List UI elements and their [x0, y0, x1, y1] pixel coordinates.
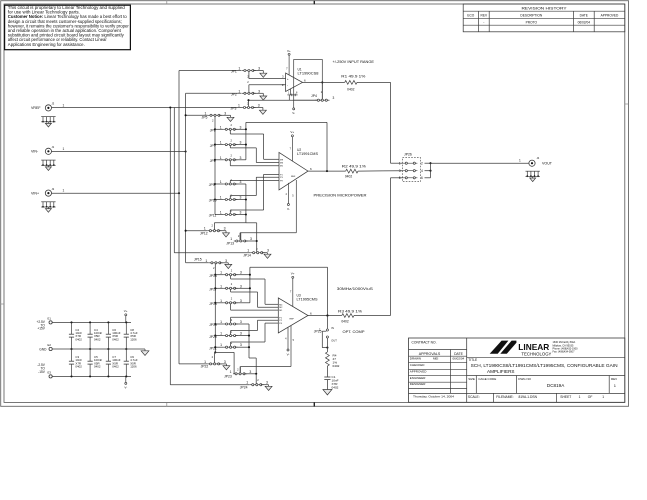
svg-text:VREF: VREF — [31, 106, 41, 110]
svg-text:1: 1 — [205, 259, 207, 263]
svg-text:JP12: JP12 — [200, 231, 208, 235]
svg-text:3: 3 — [249, 370, 251, 374]
revision history table — [463, 4, 625, 32]
svg-text:0402: 0402 — [75, 337, 82, 341]
jumper JP26 — [403, 158, 421, 182]
wire JP3 net to JP4 pin1 / U1 gain pins — [249, 99, 318, 101]
svg-text:3: 3 — [225, 259, 227, 263]
svg-text:JP4: JP4 — [311, 94, 317, 98]
jumper JP3 — [242, 107, 256, 109]
svg-text:OUT: OUT — [331, 338, 337, 342]
svg-text:JP21: JP21 — [209, 346, 217, 350]
svg-text:5: 5 — [399, 176, 401, 180]
wire E1 rail V+ — [52, 321, 131, 323]
svg-text:DATE: DATE — [580, 14, 588, 18]
jumper JP12 — [186, 230, 208, 232]
V- symbol at cap bank — [125, 376, 127, 382]
wire JP3 pin2 up to U1 pin1 net — [248, 100, 250, 106]
U1 package/feedback box — [294, 60, 323, 101]
svg-text:VOUT: VOUT — [542, 162, 553, 166]
svg-text:REV: REV — [611, 377, 617, 381]
svg-text:3: 3 — [333, 96, 335, 100]
svg-text:1: 1 — [579, 395, 581, 399]
U3 feedback from output — [326, 314, 328, 316]
wire tie down to JP24 pin2 — [255, 374, 257, 384]
svg-text:DESCRIPTION: DESCRIPTION — [520, 14, 542, 18]
svg-text:MEI: MEI — [433, 357, 439, 361]
node VIN- vertical bus — [185, 93, 187, 262]
svg-text:0402: 0402 — [94, 365, 101, 369]
svg-text:1: 1 — [63, 147, 65, 151]
wire R4 to C1 — [326, 366, 328, 377]
svg-text:R2 49.9 1%: R2 49.9 1% — [342, 164, 366, 168]
svg-text:0402: 0402 — [333, 364, 340, 368]
svg-text:REF: REF — [290, 319, 295, 321]
wire JP1 pin2 to U1 +IN — [248, 72, 250, 79]
svg-text:1: 1 — [246, 381, 248, 385]
wire tie to JP13 pin3 and JP14 pin2 — [246, 222, 257, 224]
jumper JP23 — [233, 373, 247, 375]
svg-text:CHECKED: CHECKED — [410, 363, 426, 367]
svg-text:JP22: JP22 — [201, 364, 209, 368]
U2 feedback tie vertical — [245, 122, 247, 159]
V- symbol U1 — [290, 89, 292, 95]
node VREF vertical bus — [169, 108, 171, 385]
wire E3 rail V- — [52, 375, 131, 377]
svg-text:1: 1 — [238, 89, 240, 93]
svg-text:1: 1 — [204, 360, 206, 364]
svg-text:JP8: JP8 — [210, 159, 216, 163]
svg-text:JP20: JP20 — [209, 335, 217, 339]
node bus B vertical — [173, 108, 175, 253]
ground header below VIN- — [41, 159, 55, 161]
jumper JP4 — [315, 99, 329, 101]
wire JP19 pin2 to U3 P1 input — [230, 317, 232, 323]
svg-text:3: 3 — [250, 237, 252, 241]
wire JP5 pin2 to JP6-JP11 pin1 bus — [214, 116, 216, 214]
svg-text:V+: V+ — [290, 130, 294, 134]
svg-text:ECO: ECO — [467, 14, 474, 18]
svg-text:1: 1 — [220, 332, 222, 336]
capacitor C4 100nF X5R 0402 — [89, 321, 91, 323]
wire JP25 bypass loop — [322, 330, 326, 332]
ground at JP22 — [223, 366, 230, 370]
ground at JP3 — [259, 110, 266, 114]
svg-text:OF: OF — [588, 395, 593, 399]
svg-text:3: 3 — [240, 141, 242, 145]
svg-text:JP18: JP18 — [209, 302, 217, 306]
connector J4 VOUT — [529, 160, 535, 166]
svg-text:JP24: JP24 — [240, 386, 248, 390]
wire E2 rail GND — [52, 348, 145, 350]
svg-text:CONTRACT NO.: CONTRACT NO. — [412, 340, 437, 344]
svg-text:V+: V+ — [287, 49, 291, 53]
svg-text:06/02/04: 06/02/04 — [453, 357, 465, 361]
svg-text:JP6: JP6 — [210, 129, 216, 133]
svg-text:IN: IN — [331, 326, 334, 330]
op-amp U2 triangle — [279, 152, 308, 190]
svg-text:3: 3 — [266, 381, 268, 385]
wire JP9 pin2 to U2 P1 input — [229, 180, 231, 183]
svg-text:Applications Engineering for a: Applications Engineering for assistance. — [8, 42, 85, 47]
svg-text:4: 4 — [421, 169, 423, 173]
svg-text:TECHNOLOGY: TECHNOLOGY — [521, 352, 551, 357]
svg-text:3: 3 — [258, 67, 260, 71]
svg-text:3: 3 — [240, 196, 242, 200]
op-amp U1 triangle — [286, 73, 303, 92]
svg-text:1: 1 — [230, 370, 232, 374]
wire JP7 pin2 to U2 M3 input — [229, 146, 231, 148]
capacitor C7 100nF X5R 0402 — [107, 375, 109, 377]
wire to VOUT — [431, 162, 529, 164]
U3 lower pin3 tie vertical — [248, 324, 250, 358]
svg-text:REVISION HISTORY: REVISION HISTORY — [522, 5, 567, 10]
capacitor C2 10nF X7R 0402 — [70, 321, 72, 323]
svg-text:JP25: JP25 — [314, 329, 322, 333]
svg-text:E3: E3 — [48, 371, 52, 375]
wire JP20 pin2 to U3 P2 input — [230, 331, 232, 335]
ground arrow on GND rail — [144, 349, 146, 351]
proprietary notice text box — [5, 5, 131, 50]
wire JP17 pin2 to U3 M2 input — [230, 289, 232, 292]
svg-text:0402: 0402 — [347, 87, 355, 91]
svg-text:SHEET: SHEET — [560, 395, 571, 399]
ground at JP2 — [260, 96, 267, 100]
svg-text:JP5: JP5 — [202, 116, 208, 120]
wire JP2 pin2 to U1 -IN — [248, 85, 250, 93]
jumper JP17 — [214, 287, 216, 289]
V- symbol U2 — [287, 183, 289, 204]
svg-text:3: 3 — [240, 284, 242, 288]
svg-text:1: 1 — [399, 161, 401, 165]
ground header below VOUT — [526, 170, 540, 172]
svg-text:1: 1 — [238, 104, 240, 108]
ground at JP5 — [227, 117, 234, 121]
svg-text:JP17: JP17 — [209, 288, 217, 292]
wire U2 REF pin to JP13 — [295, 180, 297, 233]
svg-text:1: 1 — [220, 284, 222, 288]
svg-text:APPROVED: APPROVED — [601, 14, 619, 18]
svg-text:VIN-: VIN- — [31, 150, 39, 154]
wire bus to JP5 — [186, 114, 208, 116]
wire VIN- to bus — [52, 151, 186, 153]
svg-text:E2: E2 — [48, 343, 52, 347]
U3 feedback tie vertical — [249, 267, 251, 303]
capacitor C6 100nF X5R 0402 — [107, 321, 109, 323]
wire U3 REF pin to JP23 — [290, 326, 292, 367]
svg-text:JP16: JP16 — [209, 274, 217, 278]
wire JP26 even pins tie — [425, 162, 431, 164]
svg-text:3: 3 — [399, 169, 401, 173]
resistor R4 47 1% 0402 — [326, 352, 330, 366]
jumper JP18 — [214, 302, 216, 304]
svg-text:GND: GND — [39, 347, 47, 351]
svg-text:3: 3 — [240, 156, 242, 160]
Linear Technology logo — [490, 341, 517, 354]
jumper JP20 — [214, 335, 216, 337]
date cell thursday — [409, 392, 625, 394]
svg-text:1: 1 — [238, 67, 240, 71]
svg-text:1: 1 — [247, 249, 249, 253]
op-amp U3 triangle — [278, 298, 308, 333]
svg-text:1: 1 — [602, 395, 604, 399]
svg-text:REV: REV — [481, 14, 488, 18]
wire JP5 pin3 to ground tap — [219, 114, 230, 116]
wire VIN+ to bus — [52, 192, 179, 194]
svg-text:1: 1 — [230, 237, 232, 241]
svg-text:-: - — [483, 21, 484, 25]
ground header below VIN+ — [41, 201, 55, 203]
ground below C1 — [323, 390, 332, 395]
svg-text:V+: V+ — [124, 309, 128, 313]
wire JP11 pin2 to U2 P9 input — [229, 210, 231, 214]
svg-text:VIN+: VIN+ — [31, 191, 39, 195]
svg-text:JP26: JP26 — [404, 152, 412, 156]
ground header below VREF — [41, 116, 55, 118]
svg-text:JP1: JP1 — [231, 70, 237, 74]
wire R2 to JP26 pin3 — [358, 170, 403, 172]
svg-text:+15V: +15V — [37, 327, 45, 331]
jumper JP19 — [214, 323, 216, 325]
wire JP22 pin2 riser and stair to JP23 pin1 — [214, 352, 216, 363]
svg-text:R3 49.9 1%: R3 49.9 1% — [338, 310, 362, 314]
wire JP23 pin2 riser to REF net — [239, 367, 241, 373]
wire JP10 pin2 to U2 P3 input — [229, 196, 231, 199]
svg-text:1: 1 — [220, 156, 222, 160]
wire JP4 pin2 riser to U1 output — [321, 82, 323, 99]
capacitor C9 4.7uF X5R 1206 — [125, 375, 127, 377]
svg-text:1: 1 — [519, 159, 521, 163]
jumper JP9 — [214, 183, 216, 185]
U1 gain pin stubs — [287, 94, 297, 96]
svg-text:SCH, LT1990CS8/LT1991CMS/LT199: SCH, LT1990CS8/LT1991CMS/LT1995CMS, CONF… — [471, 363, 618, 369]
jumper JP5 — [208, 114, 222, 116]
svg-text:1206: 1206 — [130, 365, 137, 369]
svg-text:DWG NO: DWG NO — [518, 377, 531, 381]
wire U2 output to R2 — [308, 170, 346, 172]
svg-text:R1 49.9 1%: R1 49.9 1% — [341, 75, 365, 79]
svg-text:3: 3 — [240, 332, 242, 336]
wire U1 output to R1 — [303, 81, 345, 83]
svg-text:-: - — [287, 83, 288, 87]
svg-text:1: 1 — [204, 227, 206, 231]
jumper JP25 opt comp — [326, 314, 328, 316]
svg-text:1: 1 — [220, 196, 222, 200]
svg-text:3: 3 — [240, 271, 242, 275]
wire JP6 pin2 to U2 M9 input — [229, 130, 231, 134]
svg-text:0402: 0402 — [112, 365, 119, 369]
svg-text:LT1990CS8: LT1990CS8 — [298, 71, 319, 75]
U2 lower pin3 tie vertical — [245, 184, 247, 223]
wire U3 output to R3 — [308, 315, 342, 317]
jumper JP14 — [174, 252, 250, 254]
jumper JP21 — [214, 346, 216, 348]
svg-text:JP3: JP3 — [231, 107, 237, 111]
svg-text:PRECISION MICROPOWER: PRECISION MICROPOWER — [314, 194, 368, 198]
wire JP16 pin2 to U3 M4 input — [230, 276, 232, 279]
svg-text:TITLE: TITLE — [468, 358, 478, 362]
jumper JP11 — [215, 214, 223, 216]
svg-text:3: 3 — [267, 249, 269, 253]
svg-text:1: 1 — [220, 141, 222, 145]
V+ symbol U3 — [292, 276, 294, 278]
svg-text:3: 3 — [258, 104, 260, 108]
svg-text:0402: 0402 — [94, 337, 101, 341]
svg-text:0402: 0402 — [345, 174, 353, 178]
svg-text:V-: V- — [287, 352, 290, 356]
ground at JP15 — [225, 264, 232, 268]
svg-text:REF: REF — [291, 176, 296, 178]
V+ symbol at cap bank — [125, 314, 127, 316]
svg-text:1: 1 — [63, 189, 65, 193]
svg-text:3: 3 — [240, 320, 242, 324]
svg-text:CAGE CODE: CAGE CODE — [478, 377, 496, 381]
ground at JP1 — [260, 73, 267, 77]
svg-text:2: 2 — [421, 161, 423, 165]
title block frame — [409, 338, 625, 402]
wire VREF to bus — [52, 107, 242, 109]
wire JP1 pin3 to ground tap — [253, 70, 263, 72]
wire bus to JP2 — [186, 92, 242, 94]
svg-text:JP11: JP11 — [209, 214, 217, 218]
svg-text:E1: E1 — [48, 316, 52, 320]
svg-text:PROTO: PROTO — [526, 21, 538, 25]
svg-text:JP15: JP15 — [194, 258, 202, 262]
svg-text:3: 3 — [240, 125, 242, 129]
border zone tick bottom — [166, 402, 168, 406]
svg-text:JP9: JP9 — [209, 183, 215, 187]
svg-text:SCALE:: SCALE: — [468, 395, 480, 399]
svg-text:JP2: JP2 — [231, 93, 237, 97]
svg-text:0402: 0402 — [112, 337, 119, 341]
jumper JP15 — [209, 262, 223, 264]
capacitor C5 100nF X5R 0402 — [89, 375, 91, 377]
svg-text:OPT. COMP: OPT. COMP — [343, 330, 366, 334]
svg-text:1: 1 — [63, 103, 65, 107]
V- symbol U3 — [287, 327, 289, 349]
sheet outer border frame — [1, 1, 629, 407]
jumper JP13 — [234, 240, 248, 242]
svg-text:FILENAME:: FILENAME: — [496, 395, 513, 399]
capacitor C8 4.7uF X5R 1206 — [125, 321, 127, 323]
wire JP2 pin3 to ground tap — [253, 92, 263, 94]
svg-text:1: 1 — [220, 180, 222, 184]
U2 feedback from output — [326, 170, 328, 172]
svg-text:0402: 0402 — [332, 385, 339, 389]
wire R1 to JP26 pin1 — [357, 81, 391, 83]
svg-text:V+: V+ — [291, 272, 295, 276]
svg-text:819A-1.DSN: 819A-1.DSN — [519, 395, 538, 399]
svg-text:DRAWN: DRAWN — [410, 357, 421, 361]
jumper JP8 — [214, 159, 216, 161]
svg-text:APPROVED: APPROVED — [410, 369, 428, 373]
svg-text:1: 1 — [220, 211, 222, 215]
wire JP25 to R4 — [326, 338, 328, 352]
V+ symbol U1 — [288, 53, 290, 55]
svg-text:JP23: JP23 — [224, 375, 232, 379]
svg-text:1: 1 — [220, 271, 222, 275]
jumper JP22 — [179, 363, 208, 365]
border zone tick left — [1, 303, 4, 305]
svg-text:3: 3 — [224, 227, 226, 231]
ground at JP14 — [264, 254, 271, 258]
wire JP8 pin2 to U2 M1 input — [229, 161, 231, 166]
jumper JP2 — [242, 92, 256, 94]
svg-text:DC819A: DC819A — [547, 383, 565, 388]
wire JP15 pin2 to JP16-JP21 pin1 bus — [214, 264, 216, 353]
svg-text:06/02/04: 06/02/04 — [578, 21, 591, 25]
svg-text:1: 1 — [205, 111, 207, 115]
svg-text:V-: V- — [292, 111, 295, 115]
svg-text:1: 1 — [220, 125, 222, 129]
svg-text:JP14: JP14 — [243, 253, 251, 257]
svg-text:1: 1 — [220, 343, 222, 347]
svg-text:3: 3 — [224, 360, 226, 364]
wire JP18 pin2 to U3 M1 input — [230, 304, 232, 310]
svg-text:LINEAR: LINEAR — [518, 343, 549, 352]
ground at JP24 — [265, 386, 272, 390]
wire JP3 pin3 to ground tap — [253, 107, 263, 109]
svg-text:V-: V- — [124, 386, 127, 390]
svg-text:JP13: JP13 — [226, 242, 234, 246]
svg-text:JP10: JP10 — [209, 199, 217, 203]
svg-text:LT1995CMS: LT1995CMS — [297, 298, 319, 302]
svg-text:DESIGNER: DESIGNER — [410, 382, 427, 386]
border zone tick right — [625, 103, 629, 105]
svg-text:V-: V- — [287, 207, 290, 211]
svg-text:Thursday, October 14, 2004: Thursday, October 14, 2004 — [413, 395, 454, 399]
svg-text:-15V: -15V — [38, 370, 46, 374]
svg-text:+/-250V INPUT RANGE: +/-250V INPUT RANGE — [333, 60, 375, 64]
svg-text:1206: 1206 — [130, 337, 137, 341]
jumper JP6 — [214, 128, 216, 130]
wire bus to JP1 — [179, 70, 242, 72]
jumper JP7 — [214, 144, 216, 146]
border zone tick top — [166, 1, 168, 4]
svg-text:JP19: JP19 — [209, 323, 217, 327]
ground at JP12 — [223, 233, 230, 237]
svg-text:3: 3 — [240, 211, 242, 215]
wire bus to JP15 — [186, 262, 209, 264]
svg-text:Fax: (408)434-0507: Fax: (408)434-0507 — [553, 351, 576, 354]
jumper JP16 — [214, 274, 216, 276]
wire JP13 pin2 riser to REF net — [240, 233, 242, 240]
sheet inner border frame — [4, 4, 625, 402]
capacitor C3 10nF X7R 0402 — [70, 375, 72, 377]
wire JP12 pin2 riser — [213, 223, 215, 230]
capacitor C1 10nF X7R 0402 — [324, 376, 330, 378]
svg-text:ENGINEER: ENGINEER — [410, 376, 427, 380]
wire R3 to JP26 pin5 — [354, 315, 391, 317]
svg-text:0402: 0402 — [75, 365, 82, 369]
svg-text:3: 3 — [240, 343, 242, 347]
svg-text:AMPLIFIERS: AMPLIFIERS — [487, 369, 515, 375]
svg-text:0402: 0402 — [341, 320, 349, 324]
svg-text:3: 3 — [258, 89, 260, 93]
svg-text:1: 1 — [220, 299, 222, 303]
svg-text:SIZE: SIZE — [468, 377, 475, 381]
jumper JP10 — [214, 198, 216, 200]
svg-text:1: 1 — [220, 320, 222, 324]
wire JP21 pin2 to U3 P4 input — [230, 342, 232, 346]
svg-text:3: 3 — [240, 299, 242, 303]
node VIN+ vertical bus — [178, 71, 180, 364]
jumper JP1 — [242, 70, 256, 72]
svg-text:30MHz/1000V/uS: 30MHz/1000V/uS — [337, 287, 374, 291]
svg-text:+: + — [287, 77, 289, 81]
jumper JP24 — [170, 384, 249, 386]
svg-text:LT1991CMS: LT1991CMS — [297, 152, 319, 156]
